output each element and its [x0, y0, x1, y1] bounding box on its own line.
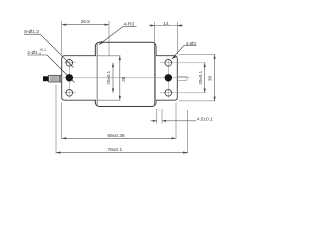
terminal pin ribs — [51, 76, 57, 82]
body inner edge left — [96, 44, 98, 106]
pin hole middle-right (filled) — [165, 74, 172, 81]
center line bottom hole row left — [64, 92, 77, 94]
dimension 78 extension right — [187, 110, 189, 153]
dimension 26.5 line — [62, 24, 109, 26]
center line top hole row left — [64, 62, 77, 64]
body inner edge right — [153, 44, 155, 106]
svg-text:38: 38 — [208, 76, 213, 82]
svg-text:38: 38 — [121, 76, 126, 82]
terminal pin end cap — [59, 76, 61, 82]
leader wire label 8-phi1.3 — [40, 34, 73, 67]
pin hole middle-left (filled) — [66, 74, 73, 81]
dimension B extension bottom — [179, 100, 215, 102]
dimension B 38 (right) line — [214, 55, 216, 101]
dimension 69 extension right — [175, 103, 177, 140]
terminal pin tip (dark) — [43, 76, 49, 81]
center line horizontal middle row — [63, 59, 206, 98]
dim D extension top (across body) — [98, 55, 121, 57]
hole bottom-right — [165, 90, 172, 97]
center line top hole row right — [160, 62, 206, 64]
dimension 14 extension right — [177, 22, 179, 54]
right plate — [156, 56, 177, 100]
svg-text:4.5±0.1: 4.5±0.1 — [197, 116, 213, 122]
dimension 4.5 extension right — [161, 109, 163, 124]
hole top-right — [165, 60, 172, 67]
center line vertical left hole column — [68, 59, 70, 98]
dimension 69 extension left — [61, 103, 63, 140]
dimension 14 line — [149, 25, 183, 27]
dimension 26.5 extension right — [108, 21, 110, 56]
dimension B 38 (right) extension top — [179, 54, 215, 56]
body outline — [95, 42, 156, 106]
dimension 4.5 extension left — [156, 109, 158, 124]
dimension 78 extension left — [55, 85, 57, 154]
dimension 4.5 arrows and leader — [151, 120, 157, 122]
dimension 78 line — [56, 152, 188, 154]
svg-text:14: 14 — [163, 21, 169, 27]
svg-text:4-Ø3: 4-Ø3 — [186, 41, 197, 46]
dimension 26.5 extension left — [61, 21, 63, 54]
hole bottom-left — [66, 90, 73, 97]
svg-text:20±0.1: 20±0.1 — [198, 70, 203, 84]
dimension A 20+-0.1 (right) line — [204, 63, 206, 93]
dimension C 20+-0.1 (middle) line — [112, 63, 114, 93]
right pin stub — [178, 77, 188, 81]
svg-text:69±0.38: 69±0.38 — [107, 133, 125, 139]
center line vertical right hole column — [167, 59, 169, 98]
svg-text:20±0.1: 20±0.1 — [106, 70, 111, 84]
dimension 14 extension left — [154, 22, 156, 54]
svg-text:4-R3: 4-R3 — [124, 22, 135, 28]
dim D extension bottom (across body) — [98, 99, 121, 101]
dimension D 38 (middle) line — [119, 56, 121, 100]
center line bottom hole row right — [160, 92, 206, 94]
hole top-left — [66, 60, 73, 67]
leader wire label 2-phi1 — [47, 55, 75, 83]
terminal pin left shaft — [49, 75, 62, 82]
dimension 69 line — [62, 137, 176, 139]
svg-text:78±0.1: 78±0.1 — [107, 147, 122, 153]
left plate — [62, 56, 96, 100]
svg-text:0: 0 — [39, 52, 41, 56]
svg-text:26.5: 26.5 — [81, 19, 91, 25]
